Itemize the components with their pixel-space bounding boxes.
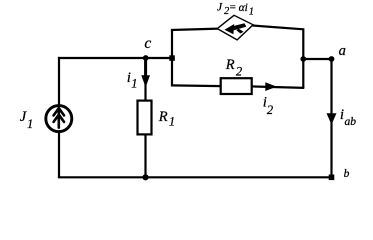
wire: top main from J1 branch to node c and loop left bbox=[58, 57, 172, 59]
svg-text:2: 2 bbox=[236, 65, 242, 79]
wire: top branch left (to diamond) bbox=[171, 29, 219, 30]
svg-text:i: i bbox=[340, 107, 344, 123]
label i_ab bbox=[340, 107, 356, 128]
wire: loop right vertical bbox=[302, 28, 304, 88]
label J1 bbox=[20, 109, 33, 131]
wire: bottom main from left corner to node b bbox=[58, 176, 332, 178]
junction at bottom (R1 branch meets bottom wire) bbox=[142, 174, 148, 180]
i1 current arrow bbox=[141, 60, 150, 87]
i_ab current arrow bbox=[327, 113, 337, 124]
wire: right vertical node a to node b bbox=[330, 59, 332, 177]
svg-text:2: 2 bbox=[267, 103, 273, 117]
svg-text:b: b bbox=[344, 168, 350, 180]
junction at loop right (tap to a) bbox=[300, 56, 306, 62]
svg-text:ab: ab bbox=[345, 116, 357, 128]
svg-text:1: 1 bbox=[131, 77, 137, 91]
svg-text:αi: αi bbox=[239, 2, 248, 14]
svg-text:c: c bbox=[144, 35, 151, 52]
svg-text:R: R bbox=[225, 57, 235, 73]
svg-text:J: J bbox=[217, 1, 223, 13]
svg-text:a: a bbox=[339, 43, 346, 59]
svg-text:=: = bbox=[229, 1, 236, 13]
svg-text:R: R bbox=[158, 109, 168, 125]
node b bbox=[329, 175, 335, 181]
node c bbox=[143, 55, 149, 61]
label R2 bbox=[225, 57, 242, 78]
current source J1 bbox=[46, 106, 72, 132]
svg-text:1: 1 bbox=[249, 7, 254, 18]
dependent source J2 (diamond) bbox=[217, 15, 253, 40]
junction at loop left bbox=[169, 55, 175, 61]
label J2 = alpha*i1 bbox=[217, 1, 254, 17]
resistor R2 bbox=[221, 78, 252, 94]
wire: R2 branch right bbox=[251, 86, 304, 88]
wire: R1 branch vertical (node c to R1 to bottom wire) bbox=[144, 58, 146, 101]
node a bbox=[329, 56, 335, 62]
label i1 bbox=[127, 70, 138, 91]
svg-text:1: 1 bbox=[169, 115, 175, 129]
resistor R1 bbox=[138, 101, 152, 135]
svg-text:J: J bbox=[20, 109, 27, 125]
wire: tap from loop right to node a bbox=[303, 58, 331, 60]
label i2 bbox=[263, 95, 273, 118]
wire: top branch right (diamond to right corner) bbox=[252, 25, 304, 29]
wire: loop left vertical bbox=[171, 30, 173, 58]
wire: left vertical upper (top wire down to J1 circle) bbox=[58, 57, 60, 106]
svg-text:1: 1 bbox=[27, 117, 33, 131]
i2 current arrow bbox=[265, 82, 276, 91]
wire: left vertical lower (J1 circle to bottom wire) bbox=[58, 131, 60, 177]
wire: R2 branch left bbox=[171, 84, 222, 87]
label R1 bbox=[158, 109, 175, 128]
